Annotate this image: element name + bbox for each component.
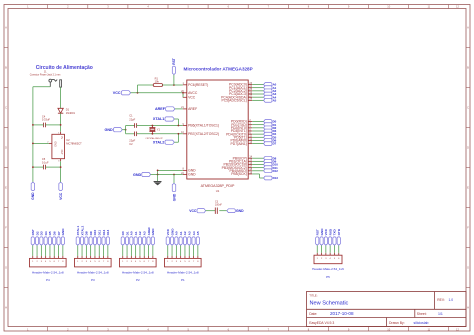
net flag D10 bbox=[264, 163, 279, 167]
net flag D12 on P3 pin 7 bbox=[102, 229, 106, 245]
wire AVCC-VCC jog bbox=[182, 93, 185, 98]
pin 5 PD3(INT1) bbox=[231, 128, 253, 133]
pin 17 PB3(MOSI/OC2) bbox=[222, 165, 253, 170]
net flag RST on P5 pin 1 bbox=[315, 229, 319, 245]
wire pin 3 to net D1 bbox=[252, 123, 263, 126]
wire pin 5 to net D3 bbox=[252, 129, 263, 132]
svg-text:REV:: REV: bbox=[437, 298, 445, 302]
wire C2 to PB7 bbox=[137, 132, 183, 135]
wire cap bar vertical bbox=[124, 126, 127, 134]
wire VCC flag to chip bbox=[131, 91, 183, 94]
pin 20 AVCC bbox=[181, 90, 198, 95]
wire P2 pin 8 bbox=[151, 245, 154, 256]
wire P2 pin 7 bbox=[147, 245, 150, 256]
wire pin 15 to net D9 bbox=[252, 160, 263, 163]
svg-text:A1: A1 bbox=[134, 231, 138, 235]
svg-text:U1: U1 bbox=[216, 189, 220, 193]
wire P4 pin 2 bbox=[36, 245, 39, 256]
pin 3 PD1(TXD) bbox=[231, 122, 252, 127]
wire AREF to chip bbox=[175, 107, 183, 110]
pin 15 PB1(OC1A) bbox=[229, 159, 253, 164]
wire jack barrel down to diode bbox=[59, 87, 62, 108]
wire P4 pin 7 bbox=[57, 245, 60, 256]
svg-text:AREF: AREF bbox=[188, 107, 197, 111]
svg-text:DTR: DTR bbox=[337, 228, 341, 235]
pin 23 PC0(ADC0) bbox=[229, 82, 253, 87]
svg-text:XTAL1: XTAL1 bbox=[76, 226, 80, 236]
wire P1 pin 5 bbox=[183, 245, 186, 256]
connector P4 Header-Male-2.54_1x8 bbox=[30, 256, 67, 282]
wire P1 pin 6 bbox=[188, 245, 191, 256]
connector P2 Header-Male-2.54_1x8 bbox=[120, 256, 157, 282]
wire P5 pin 4 bbox=[329, 245, 332, 253]
wire to resistor R1 bbox=[138, 84, 154, 87]
svg-text:GND: GND bbox=[61, 228, 65, 236]
svg-text:GND: GND bbox=[54, 141, 57, 147]
pin 7 VCC bbox=[182, 95, 195, 100]
svg-text:AVCC: AVCC bbox=[188, 91, 198, 95]
wire P4 pin 8 bbox=[61, 245, 64, 256]
wire P5 pin 1 bbox=[316, 245, 319, 253]
net flag AREF bbox=[155, 107, 175, 111]
wire C3 to GND bbox=[219, 209, 227, 212]
svg-text:Circuito de Alimentação: Circuito de Alimentação bbox=[36, 65, 93, 71]
net flag A2 on P1 pin 5 bbox=[183, 231, 187, 245]
pin 6 PD4(XCK/T0) bbox=[226, 131, 252, 136]
svg-text:Header-Male-2.54_1x8: Header-Male-2.54_1x8 bbox=[167, 270, 199, 274]
capacitor C5 0.1uF bbox=[42, 157, 49, 169]
svg-text:2017-10-08: 2017-10-08 bbox=[330, 311, 354, 316]
wire pin 14 to net D8 bbox=[252, 157, 263, 160]
svg-text:A1: A1 bbox=[179, 231, 183, 235]
crystal Y1 bbox=[149, 126, 160, 134]
svg-text:GND: GND bbox=[151, 228, 155, 236]
net flag GND for C3 bbox=[227, 209, 244, 213]
svg-text:GND: GND bbox=[104, 128, 113, 132]
net flag A1 on P1 pin 4 bbox=[179, 231, 183, 245]
wire P1 pin 8 bbox=[196, 245, 199, 256]
svg-text:100nF: 100nF bbox=[215, 204, 222, 207]
wire RST flag drop bbox=[172, 75, 175, 86]
net flag A5 on P1 pin 8 bbox=[196, 231, 200, 245]
svg-text:OUT: OUT bbox=[60, 150, 63, 156]
pin 14 PB0(ICP) bbox=[233, 156, 253, 161]
svg-text:D12: D12 bbox=[273, 169, 279, 173]
wire P3 pin 2 bbox=[81, 245, 84, 256]
svg-text:PB7(XTAL2/TOSC2): PB7(XTAL2/TOSC2) bbox=[188, 132, 219, 136]
wire junction up to pin8 bbox=[156, 170, 159, 174]
wire P5 pin 5 bbox=[333, 245, 336, 253]
wire bar to C2 bbox=[126, 132, 135, 135]
wire P3 pin 4 bbox=[89, 245, 92, 256]
svg-text:GND: GND bbox=[170, 228, 174, 236]
junction regulator GND bbox=[32, 143, 34, 145]
svg-text:XTAL2: XTAL2 bbox=[80, 226, 84, 236]
net flag D5 bbox=[264, 135, 277, 139]
diode D1 1N4001 bbox=[58, 108, 76, 115]
svg-text:D7: D7 bbox=[273, 142, 277, 146]
net flag D2 on P4 pin 2 bbox=[35, 231, 39, 245]
wire C1 to PB6 bbox=[137, 124, 183, 127]
wire P4 pin 3 bbox=[40, 245, 43, 256]
wire P1 pin 3 bbox=[175, 245, 178, 256]
wire P4 pin 1 bbox=[31, 245, 34, 256]
wire regulator OUT down bbox=[59, 161, 62, 182]
pin 1 PC6(RESET) bbox=[182, 82, 208, 87]
wire pin 19 to net D13 bbox=[252, 172, 259, 175]
wire P5 pin 6 bbox=[337, 245, 340, 253]
svg-text:Header-Male-2.54_1x8: Header-Male-2.54_1x8 bbox=[32, 270, 64, 274]
svg-text:D9: D9 bbox=[89, 231, 93, 235]
wire diode to regulator IN bbox=[59, 113, 62, 132]
wire P5 pin 2 bbox=[320, 245, 323, 253]
wire pin 13 to net D7 bbox=[252, 142, 263, 145]
pin 11 PD5(T1) bbox=[234, 135, 252, 140]
wire P2 pin 3 bbox=[130, 245, 133, 256]
capacitor C4 0.33uF bbox=[42, 114, 50, 127]
svg-text:A0: A0 bbox=[130, 231, 134, 235]
pin 24 PC1(ADC1) bbox=[229, 85, 253, 90]
svg-text:A2: A2 bbox=[183, 231, 187, 235]
net flag VCC on P5 pin 3 bbox=[324, 228, 328, 245]
wire GND flag drop bbox=[173, 175, 176, 184]
net flag XTAL1 on P3 pin 1 bbox=[76, 226, 80, 246]
wire pin 25 to net A2 bbox=[252, 89, 263, 92]
svg-text:GND: GND bbox=[236, 209, 244, 213]
svg-text:Header-Male-2.54_1x6: Header-Male-2.54_1x6 bbox=[312, 267, 344, 271]
wire C5 right bbox=[46, 166, 61, 169]
pin 2 PD0(RXD) bbox=[231, 119, 252, 124]
wire jack to GND rail bbox=[33, 85, 50, 88]
wire XTAL2 rise bbox=[174, 141, 178, 144]
net flag A2 bbox=[264, 89, 277, 93]
svg-text:RST: RST bbox=[315, 229, 319, 235]
pin 10 PB7(XTAL2/TOSC2) bbox=[181, 131, 219, 136]
svg-text:D12: D12 bbox=[102, 229, 106, 235]
wire P2 pin 5 bbox=[138, 245, 141, 256]
junction VCC-R1 bbox=[137, 92, 139, 94]
junction XTAL1-PB6 bbox=[178, 125, 180, 127]
wire XTAL1 drop bbox=[174, 118, 178, 121]
svg-text:A0: A0 bbox=[175, 231, 179, 235]
svg-text:A5: A5 bbox=[273, 98, 277, 102]
net flag A0 on P2 pin 3 bbox=[130, 231, 134, 245]
svg-text:P5: P5 bbox=[326, 275, 330, 279]
svg-text:D13: D13 bbox=[106, 229, 110, 235]
pin 12 PD6(AIN0) bbox=[230, 138, 252, 143]
net flag AREF on P2 pin 7 bbox=[147, 227, 151, 245]
wire up to R1 bbox=[136, 85, 139, 93]
junction Y1 top bbox=[152, 125, 154, 127]
net flag A0 on P1 pin 3 bbox=[175, 231, 179, 245]
svg-text:AREF: AREF bbox=[147, 227, 151, 236]
svg-text:IN: IN bbox=[60, 136, 63, 139]
net flag VCC for C3 bbox=[189, 209, 205, 213]
svg-text:Microcontrolador ATMEGA328P: Microcontrolador ATMEGA328P bbox=[184, 66, 253, 71]
pin 25 PC2(ADC2) bbox=[229, 88, 253, 93]
net flag D13 on P3 pin 8 bbox=[106, 229, 110, 245]
wire C4 right bbox=[46, 123, 61, 126]
svg-text:D7: D7 bbox=[57, 231, 61, 235]
net flag TXD on P5 pin 5 bbox=[333, 228, 337, 245]
svg-text:A3: A3 bbox=[142, 231, 146, 235]
pin 26 PC3(ADC3) bbox=[229, 91, 253, 96]
svg-text:D6: D6 bbox=[52, 231, 56, 235]
svg-text:VCC: VCC bbox=[113, 91, 121, 95]
wire P3 pin 6 bbox=[98, 245, 101, 256]
svg-text:P1: P1 bbox=[181, 278, 185, 282]
svg-text:silicioslab: silicioslab bbox=[414, 321, 429, 325]
svg-text:PB6(XTAL1/TOSC1): PB6(XTAL1/TOSC1) bbox=[188, 124, 219, 128]
net flag D7 bbox=[264, 142, 277, 146]
wire P1 pin 1 bbox=[166, 245, 169, 256]
net flag D7 on P4 pin 7 bbox=[57, 231, 61, 245]
net flag D4 bbox=[264, 132, 277, 136]
svg-text:TXD: TXD bbox=[333, 228, 337, 235]
svg-text:PD7(AIN1): PD7(AIN1) bbox=[230, 142, 246, 146]
microcontroller U1 ATMEGA328P_PDIP body bbox=[187, 80, 248, 193]
net flag D9 bbox=[264, 159, 277, 163]
capacitor C3 100nF bbox=[215, 200, 222, 214]
wire pin 6 to net D4 bbox=[252, 133, 263, 136]
svg-text:D10: D10 bbox=[93, 229, 97, 235]
title block bbox=[307, 292, 467, 327]
wire pin 18 to net D12 bbox=[252, 169, 263, 172]
svg-text:D8: D8 bbox=[85, 231, 89, 235]
svg-text:VCC: VCC bbox=[324, 228, 328, 235]
wire P3 pin 7 bbox=[102, 245, 105, 256]
wire pin 28 to net A5 bbox=[252, 99, 263, 102]
net flag D8 on P3 pin 3 bbox=[85, 231, 89, 245]
net flag D6 bbox=[264, 139, 277, 143]
svg-text:Date:: Date: bbox=[309, 312, 317, 316]
svg-text:VCC: VCC bbox=[59, 192, 63, 200]
svg-text:RST: RST bbox=[31, 229, 35, 235]
net flag D9 on P3 pin 4 bbox=[89, 231, 93, 245]
net flag A3 on P2 pin 6 bbox=[142, 231, 146, 245]
net flag D1 bbox=[264, 123, 277, 127]
svg-text:ATMEGA328P_PDIP: ATMEGA328P_PDIP bbox=[201, 184, 235, 188]
wire pin 24 to net A1 bbox=[252, 86, 263, 89]
net flag RST on P4 pin 1 bbox=[31, 229, 35, 245]
svg-text:PC5(ADC5/SCL): PC5(ADC5/SCL) bbox=[221, 99, 246, 103]
junction C4-GND bbox=[32, 124, 34, 126]
voltage regulator U2 MC78M05CT bbox=[47, 132, 82, 163]
wire P2 pin 1 bbox=[121, 245, 124, 256]
net flag GND below chip bbox=[172, 183, 176, 201]
junction XTAL2-PB7 bbox=[178, 133, 180, 135]
pin 4 PD2(INT0) bbox=[231, 125, 253, 130]
wire P4 pin 5 bbox=[48, 245, 51, 256]
junction GND-bar bbox=[125, 129, 127, 131]
pin 9 PB6(XTAL1/TOSC1) bbox=[182, 123, 219, 128]
wire P2 pin 6 bbox=[143, 245, 146, 256]
wire pin 27 to net A4 bbox=[252, 96, 263, 99]
pin 8 GND bbox=[182, 168, 196, 173]
wire pin 12 to net D6 bbox=[252, 139, 263, 142]
svg-text:VCC: VCC bbox=[188, 96, 196, 100]
wire VCC to C3 bbox=[206, 209, 216, 212]
svg-text:D1: D1 bbox=[125, 231, 129, 235]
net flag A3 on P1 pin 6 bbox=[187, 231, 191, 245]
wire GND flag to cap bar bbox=[122, 128, 125, 131]
net flag GND on P1 pin 2 bbox=[170, 228, 174, 245]
resistor R1 10k bbox=[153, 76, 162, 86]
svg-text:GND: GND bbox=[188, 169, 196, 173]
svg-text:A5: A5 bbox=[196, 231, 200, 235]
svg-text:GND: GND bbox=[188, 173, 196, 177]
net flag VCC on P1 pin 1 bbox=[166, 228, 170, 245]
net flag D3 bbox=[264, 129, 277, 133]
junction GND3 bbox=[173, 174, 175, 176]
pin 28 PC5(ADC5/SCL) bbox=[221, 98, 252, 103]
junction RST bbox=[173, 84, 175, 86]
svg-text:EasyEDA V4.9.3: EasyEDA V4.9.3 bbox=[309, 321, 334, 325]
junction AVCC bbox=[182, 92, 184, 94]
junction GND1 bbox=[157, 174, 159, 176]
net flag A3 bbox=[264, 92, 277, 96]
net flag D13 bbox=[264, 176, 279, 180]
net flag D0 bbox=[264, 120, 277, 124]
junction C4-VIN bbox=[60, 124, 62, 126]
svg-text:A4: A4 bbox=[192, 231, 196, 235]
junction C5-GND bbox=[32, 166, 34, 168]
net flag A1 bbox=[264, 86, 277, 90]
net flag GND on P5 pin 2 bbox=[320, 228, 324, 245]
svg-text:D5: D5 bbox=[48, 231, 52, 235]
wire pin 16 to net D10 bbox=[252, 163, 263, 166]
net flag D2 bbox=[264, 126, 277, 130]
net flag XTAL2 on P3 pin 2 bbox=[80, 226, 84, 246]
svg-text:GND: GND bbox=[320, 228, 324, 236]
capacitor C2 22pF bbox=[129, 132, 136, 147]
wire P4 pin 4 bbox=[44, 245, 47, 256]
pin 16 PB2(SS/OC1B) bbox=[224, 162, 253, 167]
net flag A2 on P2 pin 5 bbox=[138, 231, 142, 245]
wire P3 pin 5 bbox=[93, 245, 96, 256]
svg-text:PC6(RESET): PC6(RESET) bbox=[188, 83, 208, 87]
net flag DTR on P5 pin 6 bbox=[337, 228, 341, 245]
pin 13 PD7(AIN1) bbox=[230, 141, 252, 146]
wire P1 pin 7 bbox=[192, 245, 195, 256]
svg-text:GND: GND bbox=[133, 173, 142, 177]
svg-text:A2: A2 bbox=[138, 231, 142, 235]
svg-text:D13: D13 bbox=[273, 176, 279, 180]
wire GND rail left bbox=[31, 87, 34, 182]
wire pin 26 to net A3 bbox=[252, 93, 263, 96]
net flag D1 on P2 pin 2 bbox=[125, 231, 129, 245]
wire pin 4 to net D2 bbox=[252, 126, 263, 129]
wire P2 pin 4 bbox=[134, 245, 137, 256]
svg-text:P4: P4 bbox=[46, 278, 50, 282]
pin 19 PB5(SCK) bbox=[231, 171, 252, 176]
net flag D12 bbox=[264, 169, 279, 173]
svg-text:A3: A3 bbox=[187, 231, 191, 235]
wire bar to C1 bbox=[126, 124, 135, 127]
svg-text:D3: D3 bbox=[40, 231, 44, 235]
net flag D8 bbox=[264, 156, 277, 160]
svg-text:Drawn By:: Drawn By: bbox=[389, 321, 405, 325]
net flag GND power rail bbox=[31, 182, 35, 200]
capacitor C1 22pF bbox=[129, 114, 136, 128]
junction C5-VCC bbox=[60, 166, 62, 168]
wire R1 to reset pin bbox=[163, 84, 183, 87]
wire pin 11 to net D5 bbox=[252, 136, 263, 139]
svg-text:VCC: VCC bbox=[166, 228, 170, 235]
wire P3 pin 3 bbox=[85, 245, 88, 256]
svg-text:New Schematic: New Schematic bbox=[310, 301, 349, 307]
junction GND2 bbox=[157, 170, 159, 172]
svg-text:RXD: RXD bbox=[328, 228, 332, 235]
wire P3 pin 8 bbox=[106, 245, 109, 256]
wire GND flag to junction bbox=[151, 173, 183, 176]
connector P3 Header-Male-2.54_1x8 bbox=[75, 256, 112, 282]
net flag GND on P2 pin 8 bbox=[151, 228, 155, 245]
net flag A1 on P2 pin 4 bbox=[134, 231, 138, 245]
svg-text:Header-Male-2.54_1x8: Header-Male-2.54_1x8 bbox=[122, 270, 154, 274]
svg-text:Sheet:: Sheet: bbox=[417, 312, 427, 316]
pin 22 GND bbox=[181, 172, 196, 177]
svg-text:D2: D2 bbox=[35, 231, 39, 235]
connector P1 Header-Male-2.54_1x8 bbox=[165, 256, 202, 282]
net flag D11 bbox=[264, 166, 279, 170]
wire C5 left bbox=[33, 166, 44, 169]
wire P4 pin 6 bbox=[53, 245, 56, 256]
net flag D4 on P4 pin 4 bbox=[44, 231, 48, 245]
connector J1 power jack bbox=[30, 69, 62, 87]
net flag D5 on P4 pin 5 bbox=[48, 231, 52, 245]
ground symbol bbox=[154, 182, 162, 186]
net flag D10 on P3 pin 5 bbox=[93, 229, 97, 245]
net flag XTAL2 bbox=[145, 137, 174, 144]
net flag A0 bbox=[264, 83, 277, 87]
net flag D6 on P4 pin 6 bbox=[52, 231, 56, 245]
svg-text:1/1: 1/1 bbox=[438, 312, 443, 316]
svg-text:PB5(SCK): PB5(SCK) bbox=[231, 172, 247, 176]
svg-text:RST: RST bbox=[172, 58, 176, 65]
wire pin 2 to net D0 bbox=[252, 120, 263, 123]
svg-text:Header-Male-2.54_1x8: Header-Male-2.54_1x8 bbox=[77, 270, 109, 274]
wire regulator GND to rail bbox=[33, 142, 49, 145]
net flag A4 bbox=[264, 95, 277, 99]
wire pin 17 to net D11 bbox=[252, 166, 263, 169]
svg-text:D0: D0 bbox=[121, 231, 125, 235]
net flag GND on P4 pin 8 bbox=[61, 228, 65, 245]
svg-text:D11: D11 bbox=[97, 230, 101, 236]
wire pin 23 to net A0 bbox=[252, 83, 263, 86]
svg-text:P2: P2 bbox=[136, 278, 140, 282]
svg-text:1.0: 1.0 bbox=[449, 298, 454, 302]
svg-text:XTAL2: XTAL2 bbox=[153, 140, 164, 144]
connector P5 Header-Male-2.54_1x6 bbox=[312, 253, 344, 279]
net flag D0 on P2 pin 1 bbox=[121, 231, 125, 245]
pin 18 PB4(MISO) bbox=[230, 168, 253, 173]
net flag GND chip bbox=[133, 172, 151, 176]
svg-text:XTAL1: XTAL1 bbox=[153, 117, 164, 121]
net flag XTAL1 bbox=[153, 117, 174, 121]
net flag VCC left bbox=[113, 91, 131, 95]
svg-text:TITLE:: TITLE: bbox=[309, 294, 318, 298]
wire C4 left bbox=[33, 123, 44, 126]
pin 21 AREF bbox=[181, 106, 197, 111]
net flag RST bbox=[172, 58, 176, 74]
junction Y1 bottom bbox=[152, 133, 154, 135]
svg-text:P3: P3 bbox=[91, 278, 95, 282]
wire P3 pin 1 bbox=[76, 245, 79, 256]
svg-text:AREF: AREF bbox=[155, 107, 166, 111]
svg-text:GND: GND bbox=[172, 193, 176, 201]
net flag RXD on P5 pin 4 bbox=[328, 228, 332, 245]
